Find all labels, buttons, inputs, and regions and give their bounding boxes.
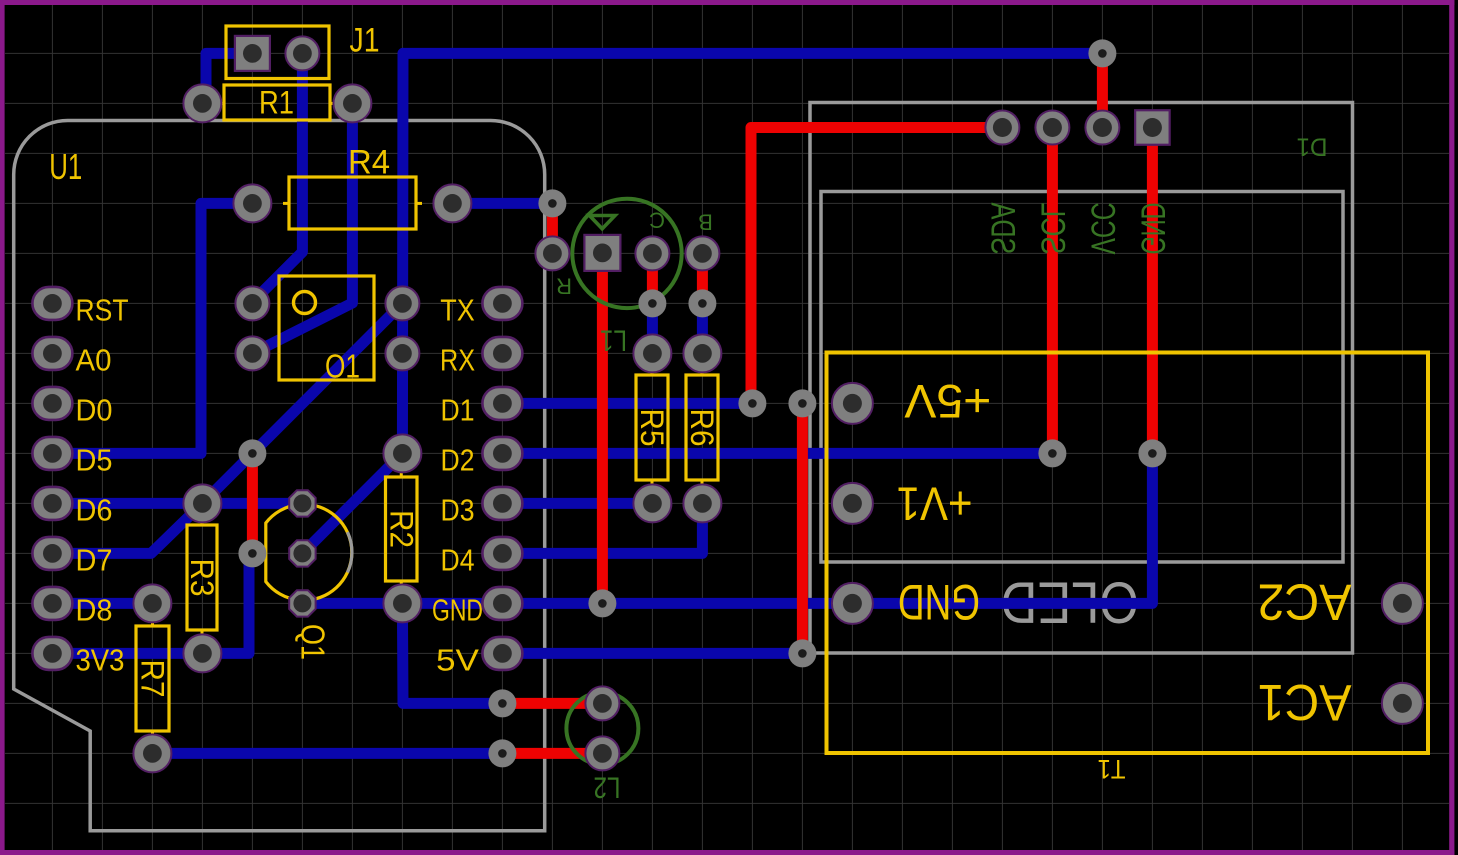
- via at 552,203: [538, 189, 566, 217]
- pad R1.1: [183, 84, 221, 122]
- U1 right pad row 7: [482, 587, 522, 620]
- via at 502,703: [488, 689, 516, 717]
- component O1 outline: [279, 276, 374, 380]
- U1 right pad row 4: [482, 437, 522, 470]
- Q1 pad 3 (octagon): [289, 590, 315, 616]
- pad R5.1: [633, 334, 671, 372]
- svg-text:R4: R4: [348, 144, 390, 182]
- pad O1.1: [235, 286, 269, 320]
- U1 left pad row 3: [32, 387, 72, 420]
- svg-text:GND: GND: [898, 574, 980, 630]
- module U1 outline: [14, 121, 545, 831]
- svg-text:GND: GND: [432, 593, 483, 627]
- U1 left pad row 1: [32, 287, 72, 320]
- svg-text:A0: A0: [76, 343, 112, 377]
- wire D6 to Q1 top: [52, 498, 302, 509]
- svg-text:R: R: [556, 274, 572, 299]
- U1 right pad row 3: [482, 387, 522, 420]
- D1 pad VCC: [1085, 111, 1119, 145]
- svg-text:D6: D6: [76, 493, 113, 527]
- svg-text:D2: D2: [441, 443, 475, 477]
- D1 pad SDA: [985, 111, 1019, 145]
- U1 right pad row 5: [482, 487, 522, 520]
- pad R1.2: [333, 84, 371, 122]
- pad R4.2: [433, 184, 471, 222]
- connector J1 outline: [226, 26, 329, 79]
- transistor Q1 outline: [266, 504, 352, 600]
- transformer T1 outline: [827, 353, 1429, 754]
- svg-text:R6: R6: [684, 409, 720, 447]
- wire Q1 mid diagonal to R2.1: [302, 453, 402, 553]
- svg-text:U1: U1: [49, 146, 82, 187]
- page border frame: [0, 0, 1454, 5]
- wire D7 to R3.1: [52, 503, 202, 553]
- wire L1 C to via: [647, 253, 658, 303]
- svg-text:D5: D5: [76, 443, 113, 477]
- pad R7.1: [133, 584, 171, 622]
- J1 pad 1 (square): [235, 36, 270, 71]
- L2 pad 1: [585, 686, 619, 720]
- pad R7.2: [133, 734, 171, 772]
- resistor R6 outline: [686, 375, 718, 480]
- wire L1 square pad down to GND via: [597, 253, 608, 603]
- svg-text:D8: D8: [76, 593, 113, 627]
- pad T1 +5V: [832, 383, 873, 424]
- via at 802,653: [788, 639, 816, 667]
- svg-text:VCC: VCC: [1083, 203, 1121, 255]
- pad R6.2: [683, 484, 721, 522]
- svg-text:AC1: AC1: [1258, 674, 1352, 731]
- J1 pad 2: [285, 36, 319, 70]
- resistor R1 outline: [224, 85, 330, 120]
- svg-text:D7: D7: [76, 543, 113, 577]
- via at 1102,53: [1088, 39, 1116, 67]
- pad O1.2: [235, 336, 269, 370]
- resistor R3 outline: [187, 525, 217, 630]
- svg-text:+V1: +V1: [897, 478, 973, 531]
- pad R4.1: [233, 184, 271, 222]
- resistor R5 outline: [636, 375, 668, 480]
- pad T1 GND: [832, 583, 873, 624]
- L1 pin1 triangle marker: [590, 216, 616, 229]
- svg-text:D4: D4: [441, 543, 475, 577]
- pad T1 +V1: [832, 483, 873, 524]
- U1 right pad row 1: [482, 287, 522, 320]
- svg-text:D3: D3: [441, 493, 475, 527]
- pad R3.2: [183, 634, 221, 672]
- svg-text:L2: L2: [594, 771, 621, 804]
- svg-text:RST: RST: [76, 293, 129, 327]
- inductor L2 back-silk circle: [566, 692, 638, 764]
- wire via down to 5V via: [797, 403, 808, 653]
- svg-text:T1: T1: [1098, 754, 1126, 784]
- U1 right pad row 8: [482, 637, 522, 670]
- via at 1052,453: [1038, 439, 1066, 467]
- D1 pad GND (square): [1135, 110, 1170, 145]
- wire SCL down: [1047, 128, 1058, 454]
- U1 left pad row 5: [32, 487, 72, 520]
- wire D8 to R7.1: [52, 598, 152, 609]
- wire via to R6.1: [697, 303, 708, 353]
- wire L1 B to via: [697, 253, 708, 303]
- pad R2.1: [383, 434, 421, 472]
- display D1 outer outline: [810, 103, 1353, 654]
- pad R3.1: [183, 484, 221, 522]
- inductor/transistor L1 back-silk circle: [572, 199, 681, 308]
- L1 square pad: [584, 235, 620, 271]
- wire 3V3 to R3.2 and via: [52, 556, 249, 653]
- wire D2 row: [502, 448, 1052, 459]
- via at 502,753: [488, 739, 516, 767]
- via at 1152,453: [1138, 439, 1166, 467]
- via at 652,303: [638, 289, 666, 317]
- svg-text:AC2: AC2: [1258, 574, 1352, 631]
- svg-text:D1: D1: [1297, 133, 1328, 161]
- resistor R7 outline: [136, 626, 169, 731]
- wire J1.2 down to O1 pad1: [252, 53, 302, 302]
- pad O1.4: [385, 336, 419, 370]
- svg-text:Q1: Q1: [295, 624, 332, 660]
- svg-text:L1: L1: [600, 324, 627, 357]
- svg-text:GND: GND: [1133, 203, 1171, 255]
- via at 602,603: [588, 589, 616, 617]
- wire via to L2.2: [502, 748, 602, 759]
- resistor R4 outline: [289, 177, 416, 229]
- U1 left pad row 2: [32, 337, 72, 370]
- pad R5.2: [633, 484, 671, 522]
- wire D4 to R6.2: [502, 503, 702, 553]
- wire GND row: [302, 453, 1152, 603]
- svg-text:R7: R7: [135, 660, 171, 698]
- U1 right pad row 6: [482, 537, 522, 570]
- wire R1.2 down to O1 pad2: [252, 103, 352, 353]
- svg-text:O1: O1: [325, 348, 360, 385]
- svg-text:SCL: SCL: [1033, 203, 1071, 255]
- via at 252,453: [238, 439, 266, 467]
- svg-text:D0: D0: [76, 393, 113, 427]
- component O1 pin1 mark: [294, 292, 316, 314]
- svg-text:SDA: SDA: [983, 202, 1021, 254]
- Q1 pad 2 (octagon): [289, 540, 315, 566]
- L1 pad R: [535, 236, 569, 270]
- wire R4.2 to via: [452, 198, 552, 209]
- D1 pad SCL: [1035, 111, 1069, 145]
- wire J1.1 to R1.1: [206, 53, 252, 103]
- wire SDA to via: [751, 128, 1002, 404]
- pad T1 AC2: [1382, 583, 1423, 624]
- wire R3.1 diagonal to via: [202, 453, 252, 503]
- via at 802,403: [788, 389, 816, 417]
- svg-text:C: C: [649, 208, 665, 233]
- L1 pad C: [635, 236, 669, 270]
- L1 pad B: [685, 236, 719, 270]
- wire 5V row: [502, 648, 802, 659]
- wire via to L2.1: [502, 698, 602, 709]
- svg-text:R2: R2: [383, 510, 419, 548]
- pad T1 AC1: [1382, 683, 1423, 724]
- pad O1.3: [385, 286, 419, 320]
- pad R6.1: [683, 334, 721, 372]
- via at 752,403: [738, 389, 766, 417]
- transistor Q1 gray arc segment: [348, 532, 352, 572]
- wire GND pad down: [1147, 128, 1158, 454]
- svg-text:3V3: 3V3: [76, 643, 125, 677]
- display D1 inner window outline: [821, 192, 1343, 563]
- svg-text:B: B: [698, 210, 713, 235]
- svg-text:+5V: +5V: [904, 375, 992, 428]
- U1 left pad row 7: [32, 587, 72, 620]
- resistor R2 outline: [386, 477, 418, 581]
- svg-text:RX: RX: [440, 343, 475, 377]
- wire via to L1 R pad: [547, 203, 558, 253]
- via at 252,553: [238, 539, 266, 567]
- pad R2.2: [383, 584, 421, 622]
- svg-text:D1: D1: [441, 393, 475, 427]
- wire via to VCC: [1097, 53, 1108, 127]
- wire D1 row: [502, 398, 752, 409]
- U1 left pad row 8: [32, 637, 72, 670]
- svg-text:R5: R5: [634, 409, 670, 447]
- svg-text:J1: J1: [350, 22, 380, 60]
- svg-text:R1: R1: [259, 85, 294, 121]
- wire long vertical to R2.1: [397, 53, 409, 453]
- U1 left pad row 4: [32, 437, 72, 470]
- wire via to via left: [247, 453, 258, 553]
- svg-text:R3: R3: [184, 559, 220, 597]
- U1 right pad row 2: [482, 337, 522, 370]
- wire top horizontal net: [403, 53, 1102, 60]
- L2 pad 2: [585, 736, 619, 770]
- svg-text:TX: TX: [440, 293, 475, 327]
- via at 702,303: [688, 289, 716, 317]
- Q1 pad 1 (octagon): [289, 490, 315, 516]
- wire D5 to R4.1: [52, 203, 252, 453]
- U1 left pad row 6: [32, 537, 72, 570]
- wire via to R5.1: [647, 303, 658, 353]
- svg-text:5V: 5V: [436, 643, 480, 677]
- wire bottom long: [152, 748, 502, 759]
- wire O1 pad3 diagonal to via: [252, 303, 402, 453]
- wire R2.2 to via: [402, 603, 502, 703]
- wire D3 to R5.2: [502, 498, 652, 509]
